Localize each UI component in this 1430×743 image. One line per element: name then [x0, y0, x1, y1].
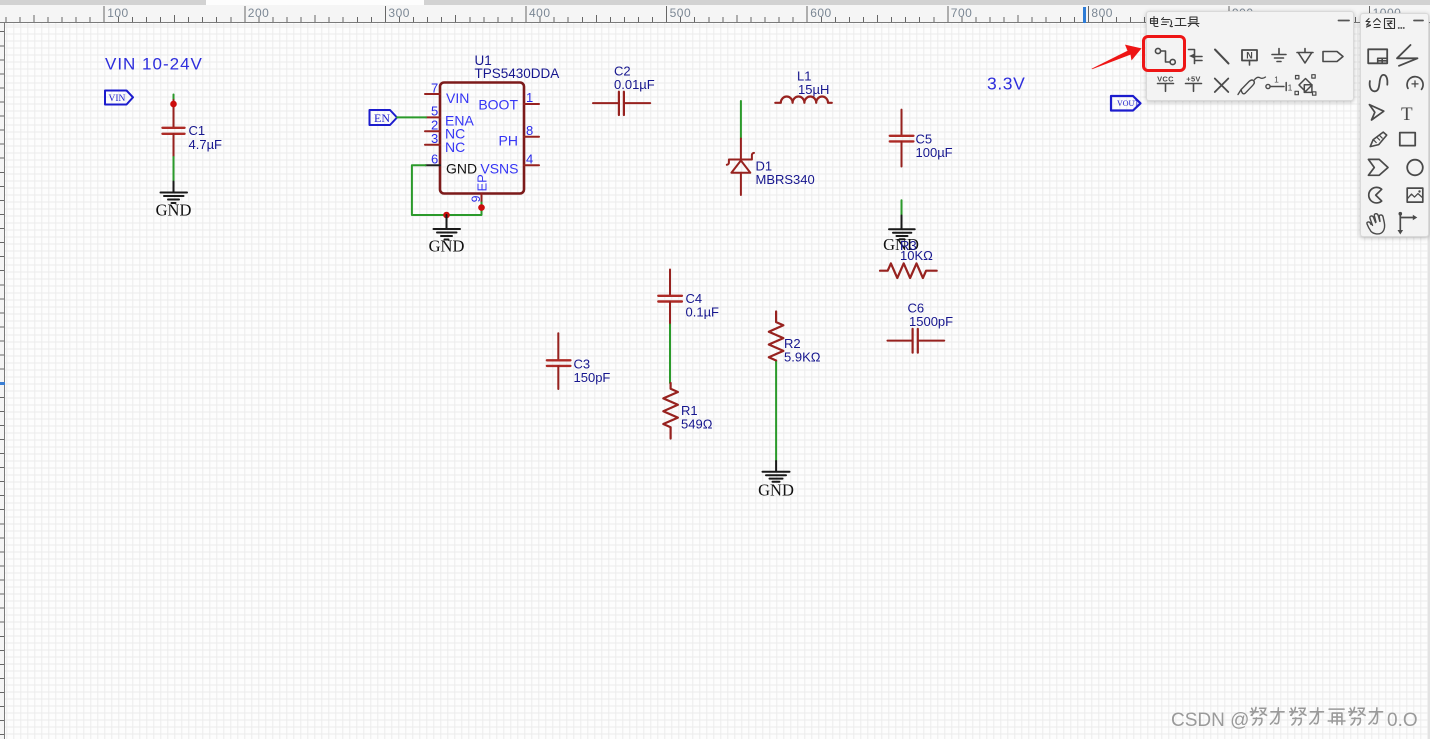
top tab	[206, 0, 424, 5]
svg-text:3.3V: 3.3V	[987, 74, 1025, 94]
wire C5 gnd green	[901, 200, 903, 215]
icon nc cross	[1214, 79, 1228, 93]
svg-text:NC: NC	[445, 139, 465, 155]
glyph 绘	[1366, 19, 1381, 28]
pin 1 stub	[524, 103, 539, 105]
svg-text:BOOT: BOOT	[478, 97, 518, 113]
panel electrical tools	[1146, 11, 1354, 101]
icon pencil	[1370, 132, 1387, 147]
glyph 具	[1188, 17, 1199, 27]
diode D1	[727, 139, 754, 196]
svg-text:MBRS340: MBRS340	[756, 172, 815, 187]
icon arrow	[1369, 105, 1383, 120]
capacitor C3	[547, 333, 571, 389]
svg-text:0.O: 0.O	[1387, 710, 1418, 731]
netflag VIN	[105, 91, 133, 105]
ground GND1	[161, 182, 188, 204]
icon +5v	[1185, 75, 1201, 92]
icon origin arrows	[1398, 212, 1418, 235]
svg-text:N: N	[1246, 50, 1253, 60]
glyph nu2	[1290, 707, 1306, 725]
glyph 电	[1150, 17, 1158, 27]
ruler cursor marks	[1083, 7, 1086, 23]
pin numbers	[431, 81, 533, 203]
svg-text:GND: GND	[429, 237, 465, 256]
icon wire	[1155, 48, 1175, 64]
svg-text:CSDN @: CSDN @	[1171, 710, 1249, 731]
wire pin6 to gnd	[412, 165, 482, 215]
svg-text:4: 4	[526, 152, 533, 167]
svg-text:VCC: VCC	[1157, 75, 1174, 84]
capacitor C1	[163, 100, 185, 157]
pin 8 stub	[524, 136, 539, 138]
icon ground	[1272, 49, 1286, 62]
junction dot on C1 top	[170, 101, 177, 108]
icon arc pie	[1369, 187, 1382, 203]
svg-text:EP: EP	[475, 174, 490, 191]
icon image	[1407, 188, 1423, 202]
icon polyline	[1397, 45, 1418, 66]
svg-text:PH: PH	[499, 133, 518, 149]
svg-text:10KΩ: 10KΩ	[900, 248, 933, 263]
svg-text:1: 1	[1274, 75, 1279, 85]
pin 5 stub	[426, 116, 440, 118]
resistor R1	[663, 383, 678, 439]
capacitor C4	[658, 270, 682, 325]
svg-text:TPS5430DDA: TPS5430DDA	[475, 66, 560, 81]
capacitor C2	[593, 92, 650, 115]
svg-text:3: 3	[431, 131, 438, 146]
title 绘图	[1366, 19, 1404, 29]
glyph li3	[1369, 707, 1383, 723]
svg-text:T: T	[1401, 104, 1413, 125]
svg-text:5: 5	[431, 104, 438, 119]
horizontal ruler	[0, 5, 1430, 23]
glyph li1	[1270, 707, 1284, 723]
ic U1 body	[440, 83, 524, 194]
junction dot pin9	[478, 204, 485, 211]
glyph 气	[1161, 18, 1172, 27]
capacitor C5	[890, 110, 914, 167]
svg-text:150pF: 150pF	[574, 370, 611, 385]
glyph 工	[1175, 19, 1186, 26]
wire C1 top green stub	[173, 95, 175, 101]
ground GND4	[763, 461, 790, 482]
icon line	[1215, 50, 1229, 64]
resistor R2	[769, 312, 784, 362]
icon bus	[1188, 50, 1202, 64]
svg-text:0.1µF: 0.1µF	[686, 305, 720, 320]
icon netlabel	[1242, 50, 1257, 65]
icon pin	[1265, 75, 1292, 93]
icon vcc	[1157, 75, 1174, 92]
annotation red box highlight	[1142, 35, 1186, 72]
ground GND2	[434, 215, 461, 240]
netflag VOUT	[1111, 96, 1141, 111]
wire above D1	[740, 101, 742, 139]
panel drawing tools	[1360, 13, 1429, 237]
right scrollbar	[1428, 23, 1430, 739]
capacitor C6	[888, 329, 945, 353]
svg-text:EN: EN	[374, 111, 390, 125]
svg-text:VIN: VIN	[446, 90, 469, 106]
title 电气工具	[1150, 17, 1199, 27]
pin 2 stub	[425, 130, 440, 132]
svg-text:8: 8	[526, 123, 533, 138]
pin 9 stub EP	[481, 194, 483, 203]
icon netflag	[1323, 52, 1343, 62]
svg-text:GND: GND	[156, 201, 192, 220]
minimize	[1338, 20, 1349, 22]
netflag EN	[370, 110, 398, 125]
icon symbol	[1368, 49, 1387, 63]
resistor R3	[880, 263, 937, 278]
top window bar	[0, 0, 1430, 5]
icon arc-center	[1407, 77, 1423, 90]
icon probe	[1238, 77, 1266, 95]
vertical ruler	[0, 23, 5, 739]
watermark CSDN	[1171, 705, 1430, 743]
pin 6 stub	[426, 164, 441, 166]
svg-text:1: 1	[1287, 83, 1292, 93]
svg-text:0.01µF: 0.01µF	[614, 77, 655, 92]
svg-text:15µH: 15µH	[798, 82, 829, 97]
icon rect	[1400, 133, 1415, 146]
glyph 图	[1385, 19, 1395, 29]
svg-text:5.9KΩ: 5.9KΩ	[784, 350, 821, 365]
svg-text:100µF: 100µF	[916, 145, 953, 160]
svg-text:1500pF: 1500pF	[909, 314, 953, 329]
inductor L1	[775, 96, 832, 102]
glyph li2	[1310, 707, 1324, 723]
pin 7 stub	[425, 93, 440, 95]
svg-text:VSNS: VSNS	[480, 161, 518, 177]
icon group	[1295, 75, 1316, 96]
svg-text:+5V: +5V	[1186, 75, 1200, 84]
pin 3 stub	[425, 144, 440, 146]
svg-text:549Ω: 549Ω	[681, 417, 713, 432]
wire R2 to GND green	[775, 362, 777, 461]
svg-text:GND: GND	[758, 481, 794, 500]
wire EN to pin5	[397, 116, 426, 118]
icon bezier	[1370, 75, 1388, 91]
pin names	[445, 90, 519, 192]
pin 4 stub	[524, 164, 539, 166]
svg-text:1: 1	[526, 90, 533, 105]
glyph zai	[1328, 709, 1345, 724]
svg-text:VIN 10-24V: VIN 10-24V	[105, 55, 203, 74]
glyph nu1	[1250, 707, 1266, 725]
svg-text:C1: C1	[189, 123, 206, 138]
icon chevron	[1368, 159, 1388, 175]
svg-text:VIN: VIN	[109, 94, 126, 104]
annotation red arrow	[1085, 40, 1147, 75]
minimize	[1414, 20, 1423, 22]
ground GND3	[889, 216, 915, 240]
junction dot gnd wire	[443, 212, 450, 219]
svg-text:4.7µF: 4.7µF	[189, 137, 223, 152]
icon earth	[1297, 49, 1313, 64]
wire C1 to GND green	[173, 157, 175, 182]
svg-text:7: 7	[431, 81, 438, 96]
svg-text:9: 9	[469, 195, 483, 202]
glyph nu3	[1349, 707, 1365, 725]
wire C4 to R1 green	[669, 325, 671, 384]
icon hand	[1367, 214, 1385, 234]
dots	[1399, 27, 1405, 29]
svg-text:GND: GND	[446, 161, 477, 177]
svg-text:6: 6	[431, 152, 438, 167]
icon circle	[1407, 160, 1423, 176]
svg-text:VOUT: VOUT	[1117, 99, 1139, 108]
